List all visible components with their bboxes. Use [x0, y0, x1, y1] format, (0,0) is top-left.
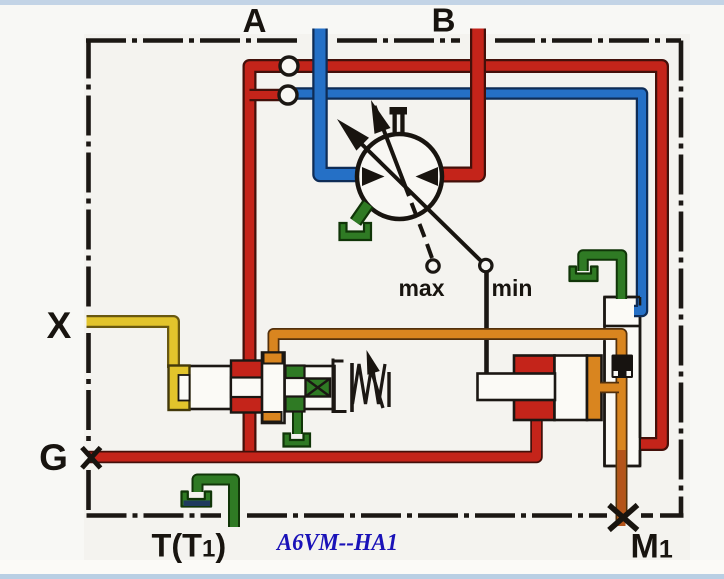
enclosure border bottom — [87, 513, 222, 518]
orange stub to orange riser — [600, 382, 619, 394]
spring seat — [350, 363, 354, 412]
drain green at left valve — [284, 411, 311, 447]
svg-text:T(T1): T(T1) — [152, 528, 227, 564]
node max circle — [427, 260, 439, 272]
svg-text:G: G — [39, 437, 68, 478]
svg-text:A6VM--HA1: A6VM--HA1 — [275, 529, 398, 556]
spool white center — [262, 353, 285, 424]
green land top — [286, 366, 305, 379]
wire blue pilot line + right loop — [294, 94, 642, 312]
drain green at motor — [340, 204, 372, 240]
svg-text:A: A — [243, 2, 267, 39]
wire orange lower segment darker — [618, 450, 626, 526]
motor circle U1 — [357, 134, 442, 219]
node measuring circle on red line — [280, 57, 298, 75]
drain green T port — [182, 480, 235, 528]
enclosure border right — [679, 41, 684, 516]
red section — [231, 361, 263, 413]
wire red port B pipe — [443, 29, 479, 175]
svg-text:min: min — [492, 275, 533, 301]
spring adjust arrow — [372, 371, 384, 408]
wire orange pilot pressure line to M1 — [274, 334, 622, 523]
orifice element in tall valve — [612, 355, 634, 379]
wire red stub to node circle — [250, 89, 285, 102]
spring — [353, 364, 386, 404]
yellow end cap — [169, 366, 190, 411]
svg-text:B: B — [432, 2, 456, 39]
actuator box — [478, 374, 556, 401]
drive shaft — [390, 107, 408, 135]
wire yellow X port line — [87, 322, 174, 369]
valve body white left chamber — [188, 366, 231, 409]
arrowhead solid line — [337, 119, 369, 151]
white section — [555, 356, 588, 421]
orange section — [587, 356, 602, 421]
wire red pressure line A/B top + right loop — [250, 66, 663, 458]
svg-text:X: X — [47, 305, 72, 346]
left control valve assembly — [169, 350, 390, 423]
port X mark M1 — [609, 505, 638, 530]
flow arrow right — [416, 167, 439, 186]
right white chamber — [285, 366, 335, 409]
arrowhead dashed line — [371, 100, 391, 134]
flow arrow left — [362, 167, 385, 186]
valve right rim — [333, 359, 347, 414]
port X mark G — [82, 448, 101, 469]
throttle green X box — [306, 379, 331, 397]
node measuring circle on blue line — [279, 86, 297, 104]
orange cap bottom — [263, 412, 282, 422]
svg-text:max: max — [398, 275, 444, 301]
tall right valve body — [605, 297, 641, 466]
white channel band — [231, 378, 263, 398]
drain green at tall valve top — [570, 255, 622, 299]
right regulator valve assembly — [478, 356, 602, 421]
enclosure dash-dot border top — [86, 39, 684, 516]
variable arrow dashed to max — [375, 106, 433, 258]
variable arrow solid to min — [356, 139, 482, 263]
orange cap top — [264, 353, 283, 364]
wire blue port A pipe — [320, 29, 358, 175]
node min circle — [480, 259, 492, 271]
wire red G line — [88, 417, 537, 457]
enclosure border left — [86, 39, 91, 311]
green land bottom — [286, 397, 305, 412]
red section — [514, 356, 555, 421]
wire min control line vertical — [484, 268, 489, 374]
tall valve border restroke — [605, 297, 641, 466]
